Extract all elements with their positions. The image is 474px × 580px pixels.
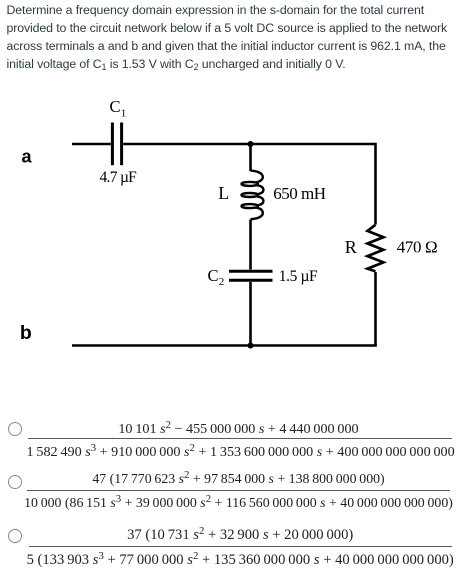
wire middle branch lower xyxy=(249,282,252,346)
option 3 radio xyxy=(8,529,22,543)
svg-text:1: 1 xyxy=(121,108,127,120)
svg-text:C: C xyxy=(208,266,219,285)
value 1.5 uF xyxy=(279,268,318,285)
terminal b label xyxy=(20,322,32,344)
svg-text:b: b xyxy=(20,322,32,344)
option 3 fraction xyxy=(22,523,458,569)
option 1 radio xyxy=(8,422,22,436)
wire right branch lower xyxy=(374,272,377,346)
option 2 radio xyxy=(8,475,22,489)
svg-text:R: R xyxy=(345,237,357,257)
svg-text:1.5 µF: 1.5 µF xyxy=(279,268,318,285)
option 2 fraction xyxy=(20,467,457,513)
capacitor C1 xyxy=(112,123,121,166)
capacitor C2 xyxy=(229,271,273,280)
value 4.7 uF xyxy=(100,169,138,186)
svg-text:650 mH: 650 mH xyxy=(273,184,325,203)
node junction top xyxy=(248,141,254,147)
value 650 mH xyxy=(273,184,325,203)
svg-text:a: a xyxy=(22,147,33,167)
svg-text:4.7 µF: 4.7 µF xyxy=(100,169,138,186)
terminal a label xyxy=(22,147,33,167)
inductor L coil xyxy=(242,171,264,220)
wire top-left from a to C1 xyxy=(72,143,111,145)
value 470 ohm xyxy=(397,237,437,256)
svg-text:2: 2 xyxy=(219,276,225,288)
node junction bottom xyxy=(248,343,254,349)
label R xyxy=(345,237,357,257)
wire middle branch upper xyxy=(249,144,252,171)
label C2 xyxy=(208,266,225,288)
wire bottom xyxy=(72,344,377,346)
svg-text:470 Ω: 470 Ω xyxy=(397,237,437,256)
resistor R zigzag xyxy=(368,225,384,272)
wire middle branch between L and C2 xyxy=(249,220,252,270)
label C1 xyxy=(110,97,127,120)
label L xyxy=(218,183,229,203)
wire top from C1 to top-right corner xyxy=(123,143,375,145)
svg-text:C: C xyxy=(110,97,121,116)
option 1 fraction xyxy=(27,414,451,460)
wire right branch upper xyxy=(374,143,377,225)
svg-text:L: L xyxy=(218,183,229,203)
